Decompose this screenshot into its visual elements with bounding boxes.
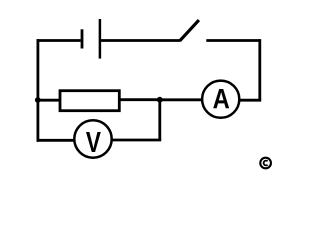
voltmeter M2 label V <box>86 132 101 152</box>
wire left vertical <box>37 39 40 142</box>
wire ammeter right lead <box>239 99 262 102</box>
node junction dot right (resistor/ammeter/voltmeter) <box>157 97 163 103</box>
ammeter M1 label A <box>213 89 229 108</box>
wire voltmeter right lead <box>112 139 161 142</box>
wire resistor left lead <box>38 99 60 102</box>
wire top-left horizontal <box>37 39 81 42</box>
wire bottom to voltmeter <box>37 139 74 142</box>
wire junction to resistor <box>120 98 160 101</box>
copyright mark <box>260 158 271 169</box>
wire voltmeter branch vertical up to junction <box>158 100 161 140</box>
wire switch fixed contact to top-right corner <box>206 39 259 42</box>
node junction dot left <box>35 97 41 103</box>
resistor R1 box <box>60 91 119 111</box>
wire ammeter left lead to junction <box>160 98 203 101</box>
battery B1 long plate (positive) <box>99 19 102 59</box>
voltmeter M2 circle <box>74 120 111 157</box>
battery B1 short plate (negative) <box>81 29 84 48</box>
ammeter M1 circle <box>202 81 239 118</box>
switch S1 open blade <box>180 20 199 41</box>
wire right vertical <box>258 39 261 100</box>
wire battery to switch <box>100 39 180 42</box>
